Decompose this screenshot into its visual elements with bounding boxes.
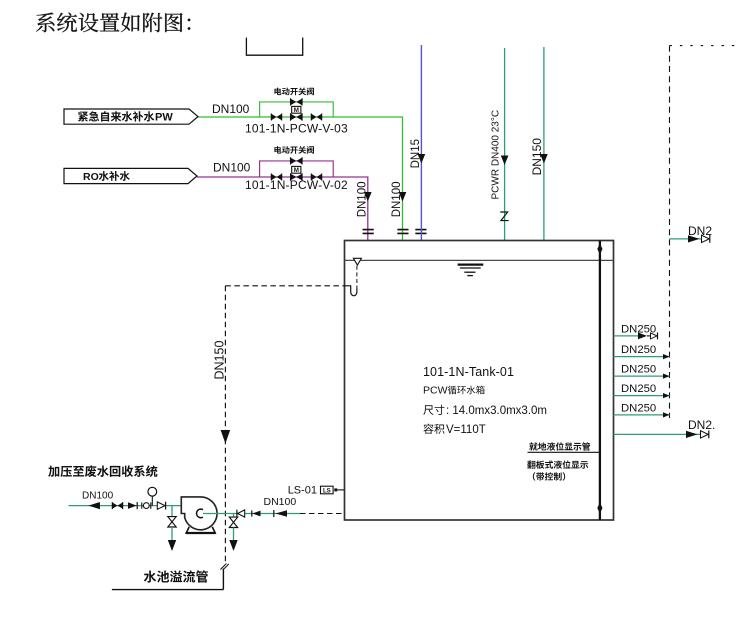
svg-text:DN100: DN100 — [356, 181, 368, 217]
svg-text:DN150: DN150 — [530, 138, 544, 176]
svg-text:: 14.0mx3.0mx3.0m: : 14.0mx3.0mx3.0m — [446, 405, 547, 417]
svg-text:DN100: DN100 — [213, 161, 251, 175]
svg-text:M: M — [294, 107, 299, 114]
svg-text:101-1N-Tank-01: 101-1N-Tank-01 — [423, 365, 514, 379]
svg-text:DN250: DN250 — [621, 323, 656, 335]
svg-text:DN250: DN250 — [621, 344, 656, 356]
svg-text:DN250: DN250 — [621, 383, 656, 395]
svg-text:DN100: DN100 — [391, 181, 403, 217]
svg-text:LS-01: LS-01 — [288, 484, 317, 496]
svg-text:RO: RO — [83, 171, 99, 183]
svg-text:101-1N-PCW-V-02: 101-1N-PCW-V-02 — [245, 178, 348, 192]
svg-text:PCWR DN400 23°C: PCWR DN400 23°C — [491, 110, 502, 200]
svg-text:DN100: DN100 — [212, 102, 250, 116]
svg-text:DN250: DN250 — [621, 364, 656, 376]
svg-text:DN100: DN100 — [264, 496, 297, 508]
svg-text:V=110T: V=110T — [446, 424, 486, 436]
svg-text:DN2.: DN2. — [688, 418, 715, 432]
svg-text:DN250: DN250 — [621, 402, 656, 414]
svg-text:DN2: DN2 — [688, 224, 712, 238]
svg-text:DN150: DN150 — [212, 341, 226, 380]
svg-text:DN100: DN100 — [82, 491, 114, 502]
svg-text:PCW: PCW — [423, 385, 448, 397]
svg-text:LS: LS — [323, 488, 331, 494]
svg-text:DN15: DN15 — [410, 139, 422, 168]
svg-text:PW: PW — [155, 112, 173, 124]
svg-text:M: M — [294, 167, 299, 174]
svg-text:101-1N-PCW-V-03: 101-1N-PCW-V-03 — [245, 122, 348, 136]
